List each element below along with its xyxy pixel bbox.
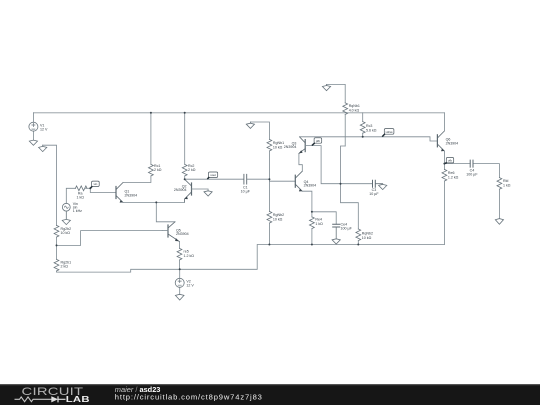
svg-text:Rld: Rld bbox=[503, 179, 508, 183]
svg-text:1.2 kΩ: 1.2 kΩ bbox=[448, 175, 459, 179]
svg-text:vin: vin bbox=[93, 182, 97, 186]
ground (below V1) bbox=[29, 140, 37, 145]
ground (Q2 base) bbox=[204, 191, 212, 196]
wire vin node to Q1 base bbox=[90, 188, 116, 192]
resistor re5 bbox=[177, 242, 182, 270]
resistor RqNb1 bbox=[343, 103, 348, 146]
wire Q6 emitter node bbox=[443, 151, 445, 169]
svg-text:http://circuitlab.com/ct8p9w74: http://circuitlab.com/ct8p9w74z7j83 bbox=[115, 392, 263, 401]
wire divider node to Q4 base bbox=[269, 179, 295, 181]
ground (below Vin) bbox=[62, 211, 70, 225]
resistor RgNb2 bbox=[267, 179, 272, 244]
svg-text:2N3904: 2N3904 bbox=[174, 188, 187, 192]
svg-text:12 V: 12 V bbox=[186, 284, 194, 288]
wire Q6 emitter to C4 bbox=[444, 163, 470, 165]
wire Rg2b2 to junction bbox=[56, 237, 58, 245]
transistor Q1 bbox=[116, 183, 123, 203]
wire Q4 emitter to Re4 bbox=[302, 191, 312, 212]
wire Q1 collector to Rc1 bbox=[123, 176, 151, 183]
svg-text:10 kΩ: 10 kΩ bbox=[362, 236, 372, 240]
resistor Rc3 bbox=[360, 113, 365, 137]
svg-text:vout: vout bbox=[210, 173, 216, 177]
svg-text:Re6: Re6 bbox=[448, 171, 455, 175]
wire C4 to Rld bbox=[474, 164, 500, 178]
svg-text:2N3904: 2N3904 bbox=[284, 145, 297, 149]
source Vin wire up to Ra bbox=[66, 188, 75, 203]
resistor Rg2b1 bbox=[54, 245, 59, 271]
resistor RgNb1 bbox=[267, 139, 272, 179]
resistor Re4 bbox=[310, 212, 315, 245]
svg-text:Rc3: Rc3 bbox=[366, 124, 372, 128]
svg-text:2 kΩ: 2 kΩ bbox=[154, 168, 162, 172]
transistor Q2 (mirrored) bbox=[185, 179, 192, 202]
svg-text:12 V: 12 V bbox=[40, 127, 48, 131]
resistor Re6 bbox=[442, 169, 447, 244]
ground (top divider) bbox=[322, 84, 330, 90]
svg-text:2N3904: 2N3904 bbox=[446, 141, 459, 145]
svg-text:vdrive: vdrive bbox=[386, 130, 394, 134]
resistor Ra bbox=[75, 186, 87, 191]
resistor Rld bbox=[497, 178, 502, 219]
svg-text:2N3904: 2N3904 bbox=[304, 184, 317, 188]
svg-text:10 kΩ: 10 kΩ bbox=[61, 231, 71, 235]
capacitor Ce4 bbox=[333, 224, 340, 227]
ground (below Ce4) bbox=[332, 227, 340, 244]
logo resistor zigzag bbox=[15, 397, 52, 402]
capacitor C1 bbox=[244, 174, 247, 184]
ground (below Rld) bbox=[495, 219, 503, 225]
transistor Q6 bbox=[437, 131, 444, 151]
transistor Q5 bbox=[168, 222, 180, 242]
svg-text:vfb: vfb bbox=[448, 159, 452, 163]
svg-text:10 µF: 10 µF bbox=[241, 189, 251, 193]
wire Q6 collector to rail bbox=[443, 113, 445, 131]
wire bottom-left rail bbox=[57, 245, 445, 273]
wire emitters Q1-Q2 bbox=[123, 201, 185, 203]
resistor Rc2 bbox=[182, 113, 187, 179]
capacitor C3 bbox=[373, 180, 376, 187]
node flag vout bbox=[207, 172, 217, 179]
svg-text:5.6 kΩ: 5.6 kΩ bbox=[366, 129, 377, 133]
svg-text:1.2 kΩ: 1.2 kΩ bbox=[184, 254, 195, 258]
wire C1 to divider node bbox=[247, 178, 269, 180]
svg-text:LAB: LAB bbox=[66, 396, 90, 405]
wire Q2 base to ground bbox=[192, 189, 209, 191]
node flag vfb bbox=[445, 158, 454, 164]
node flag pfb bbox=[312, 138, 322, 146]
svg-text:10 µF: 10 µF bbox=[369, 192, 379, 196]
svg-text:1 kΩ: 1 kΩ bbox=[503, 184, 511, 188]
source Vin (sine) bbox=[62, 203, 70, 211]
resistor Rc1 bbox=[148, 113, 153, 176]
wire vout rail to C1 bbox=[185, 178, 244, 180]
ground (right of C3) bbox=[376, 184, 387, 190]
ground (left bias chain) bbox=[39, 145, 47, 151]
wire Q3 base bbox=[305, 146, 372, 184]
capacitor C4 bbox=[470, 160, 473, 167]
ground (above RgNb1) bbox=[246, 122, 254, 128]
wire top ground to RqNb1 bbox=[327, 84, 346, 102]
node flag vin bbox=[90, 181, 99, 188]
transistor Q4 bbox=[295, 171, 302, 191]
svg-text:RgNb2: RgNb2 bbox=[273, 213, 284, 217]
wire divider mid chain bbox=[341, 146, 359, 229]
svg-text:2N3904: 2N3904 bbox=[176, 232, 189, 236]
wire ground to RgNb1 bbox=[250, 122, 269, 139]
svg-text:100 µF: 100 µF bbox=[341, 227, 353, 231]
svg-text:1 kΩ: 1 kΩ bbox=[315, 222, 323, 226]
svg-text:2 kΩ: 2 kΩ bbox=[61, 265, 69, 269]
voltage source V2 bbox=[175, 269, 184, 294]
svg-text:2N3904: 2N3904 bbox=[125, 193, 138, 197]
transistor Q3 (mirrored) bbox=[299, 137, 305, 154]
wire Q5 base stub bbox=[162, 230, 168, 232]
wire Ra to vin node bbox=[85, 187, 90, 189]
wire ground to left bias chain bbox=[43, 145, 57, 225]
svg-text:2 kΩ: 2 kΩ bbox=[188, 168, 196, 172]
svg-text:10 kΩ: 10 kΩ bbox=[273, 146, 283, 150]
node flag vdrive bbox=[382, 129, 394, 137]
svg-text:pfb: pfb bbox=[316, 139, 321, 143]
svg-text:100 µF: 100 µF bbox=[466, 173, 478, 177]
wire Q4 collector to Q3 emitter bbox=[299, 154, 302, 172]
logo diode bbox=[51, 396, 58, 402]
wire Re4 node to Ce4 bbox=[312, 212, 336, 224]
resistor Rg2b2 bbox=[54, 225, 59, 237]
svg-text:4.0 kΩ: 4.0 kΩ bbox=[349, 109, 360, 113]
voltage source V1 bbox=[29, 113, 38, 140]
svg-text:1 kΩ: 1 kΩ bbox=[76, 195, 84, 199]
FOOTER bbox=[0, 384, 540, 405]
wire Q3 collector / vdrive / Q6 base bbox=[300, 137, 438, 141]
svg-text:1 kHz: 1 kHz bbox=[73, 209, 82, 213]
svg-text:RqNb2: RqNb2 bbox=[362, 232, 373, 236]
svg-text:10 kΩ: 10 kΩ bbox=[273, 217, 283, 221]
wire top supply rail bbox=[33, 112, 444, 114]
svg-text:RqNb1: RqNb1 bbox=[349, 104, 360, 108]
svg-text:RgNb1: RgNb1 bbox=[273, 141, 284, 145]
wire junction to Q5 base bbox=[57, 231, 163, 246]
footer bar bbox=[0, 384, 540, 405]
wire tail to Q5 collector bbox=[156, 202, 175, 221]
ground (below V2) bbox=[175, 294, 184, 300]
resistor RqNb2 bbox=[356, 229, 361, 245]
